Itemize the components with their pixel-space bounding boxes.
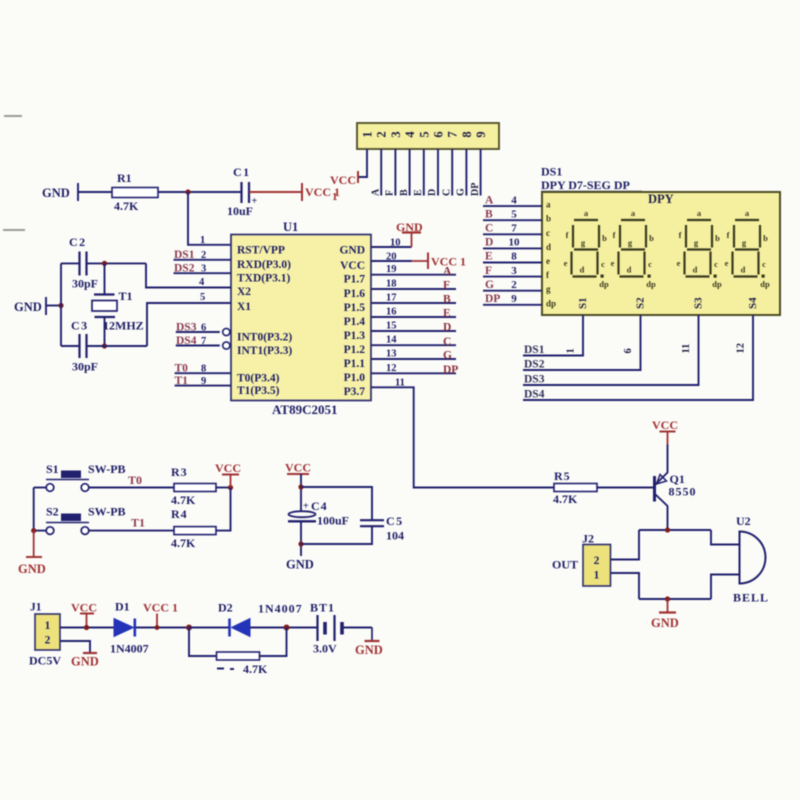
junction X2/crystal xyxy=(102,261,107,266)
svg-text:B: B xyxy=(399,189,410,196)
resistor R4 xyxy=(171,507,216,550)
svg-text:5: 5 xyxy=(200,292,205,303)
wire: U1 pin 3 (DS2) xyxy=(174,272,232,274)
svg-text:20: 20 xyxy=(386,251,397,262)
wire: R1 to C1, node RST xyxy=(158,191,241,193)
svg-text:C: C xyxy=(485,223,493,235)
capacitor C2 xyxy=(69,235,98,291)
svg-text:3: 3 xyxy=(389,131,403,137)
svg-text:4: 4 xyxy=(199,277,205,288)
wire: X1 node to U1 pin 5 xyxy=(147,303,231,346)
buzzer U2 BELL xyxy=(733,514,769,605)
wire: rail to S2 xyxy=(34,530,47,532)
wire: bell loop top xyxy=(639,529,711,531)
svg-text:11: 11 xyxy=(681,344,692,354)
wire: node to U1 pin 1 xyxy=(188,192,231,245)
wire: J2 pin 1 to bottom xyxy=(611,573,640,599)
svg-text:4: 4 xyxy=(511,194,517,206)
svg-text:d: d xyxy=(693,265,698,275)
svg-text:e: e xyxy=(546,256,550,266)
svg-text:INT0(P3.2): INT0(P3.2) xyxy=(237,332,292,344)
wire: bell loop bottom xyxy=(639,598,711,600)
svg-text:BT1: BT1 xyxy=(310,601,335,615)
wire: display input A xyxy=(483,205,542,207)
svg-text:RST/VPP: RST/VPP xyxy=(237,244,285,256)
svg-text:J1: J1 xyxy=(30,602,42,614)
svg-text:c: c xyxy=(648,259,652,269)
svg-text:DS3: DS3 xyxy=(524,374,545,386)
ground (switches) xyxy=(18,531,46,576)
wire: gnd rail vertical xyxy=(60,263,62,346)
svg-text:4.7K: 4.7K xyxy=(171,536,196,550)
svg-text:P1.1: P1.1 xyxy=(344,358,366,370)
wire: rail to C3 xyxy=(61,345,80,347)
wire: R3 to VCC node xyxy=(216,487,231,489)
svg-text:3.0V: 3.0V xyxy=(313,642,337,656)
svg-text:2: 2 xyxy=(45,635,51,647)
capacitor C3 xyxy=(71,319,98,374)
power symbol VCC (C4) xyxy=(285,461,311,475)
svg-text:d: d xyxy=(546,242,551,252)
svg-text:D: D xyxy=(427,189,438,196)
svg-text:9: 9 xyxy=(474,131,488,137)
svg-text:P1.6: P1.6 xyxy=(344,288,366,300)
svg-text:DP: DP xyxy=(485,293,500,305)
svg-text:1: 1 xyxy=(361,131,375,137)
wire: header pin 5 xyxy=(423,149,425,196)
svg-text:30pF: 30pF xyxy=(72,360,98,374)
svg-text:DPY D7-SEG DP: DPY D7-SEG DP xyxy=(541,178,630,192)
svg-text:a: a xyxy=(546,200,551,210)
connector J2 OUT xyxy=(552,532,611,587)
svg-text:SW-PB: SW-PB xyxy=(88,505,126,519)
wire: header pin 7 xyxy=(451,149,453,196)
svg-text:4.7K: 4.7K xyxy=(114,199,139,213)
svg-text:R1: R1 xyxy=(117,171,132,185)
svg-text:AT89C2051: AT89C2051 xyxy=(272,402,337,417)
svg-text:8: 8 xyxy=(511,251,517,263)
svg-text:b: b xyxy=(715,233,720,243)
svg-text:GND: GND xyxy=(355,643,383,657)
junction VCC/J1 xyxy=(84,625,89,630)
svg-text:e: e xyxy=(677,258,681,268)
svg-text:G: G xyxy=(485,279,494,291)
svg-text:P1.3: P1.3 xyxy=(344,330,366,342)
svg-text:P1.7: P1.7 xyxy=(344,274,366,286)
op-amp U1 AT89C2051 (microcontroller) xyxy=(231,220,371,417)
wire: U1 pin 13 (G) xyxy=(371,358,456,360)
svg-text:11: 11 xyxy=(395,377,405,388)
svg-text:6: 6 xyxy=(201,322,206,333)
svg-text:2: 2 xyxy=(375,131,389,137)
wire: display input DP xyxy=(483,304,542,306)
wire: R5 to Q1 base xyxy=(597,487,655,489)
wire: header pin 2 xyxy=(380,149,382,196)
wire: bypass right xyxy=(260,628,287,657)
wire: to crystal top xyxy=(104,263,106,294)
ground (BT1) xyxy=(355,628,383,658)
svg-text:S2: S2 xyxy=(46,505,59,519)
junction RST node xyxy=(185,189,190,194)
svg-text:GND: GND xyxy=(18,562,46,576)
svg-text:b: b xyxy=(602,233,607,243)
wire: loop to bell bottom xyxy=(711,575,740,600)
wire: top to J2 pin 2 xyxy=(611,530,640,560)
7-segment digit 1 xyxy=(564,208,609,289)
svg-text:INT1(P3.3): INT1(P3.3) xyxy=(237,345,292,357)
svg-text:DS1: DS1 xyxy=(541,165,562,179)
capacitor C5 xyxy=(360,514,404,543)
svg-text:2: 2 xyxy=(201,250,206,261)
wire: U1 pin 16 (E) xyxy=(371,316,456,318)
svg-text:VCC: VCC xyxy=(330,173,356,187)
wire: S3 to DS3 xyxy=(523,315,699,385)
svg-text:R3: R3 xyxy=(171,465,188,479)
svg-text:T0: T0 xyxy=(175,362,189,374)
svg-text:14: 14 xyxy=(386,335,397,346)
svg-text:+: + xyxy=(252,196,258,207)
svg-text:S4: S4 xyxy=(747,297,759,309)
svg-text:3: 3 xyxy=(511,265,517,277)
svg-text:GND: GND xyxy=(14,300,42,314)
display part label xyxy=(541,178,642,192)
svg-text:F: F xyxy=(385,190,396,196)
svg-text:dp: dp xyxy=(712,279,722,289)
svg-text:OUT: OUT xyxy=(552,558,578,572)
wire: J1 pin2 to GND xyxy=(60,641,90,653)
ground (crystal) xyxy=(14,297,46,315)
svg-text:12: 12 xyxy=(386,363,397,374)
svg-text:G: G xyxy=(456,188,467,196)
svg-text:R4: R4 xyxy=(171,507,188,521)
wire: header pin 1 to VCC xyxy=(358,149,367,177)
power symbol VCC (J1) xyxy=(71,601,97,628)
svg-text:B: B xyxy=(485,208,493,220)
svg-text:c: c xyxy=(546,228,550,238)
svg-text:8: 8 xyxy=(201,363,206,374)
svg-text:12: 12 xyxy=(736,343,747,354)
svg-text:b: b xyxy=(546,214,551,224)
wire: C2 to X2 node xyxy=(87,262,147,264)
wire: S1 to DS1 xyxy=(523,315,583,356)
switch S1 SW-PB xyxy=(46,462,126,491)
svg-text:7: 7 xyxy=(201,336,206,347)
pin 7 inversion circle xyxy=(223,342,230,349)
wire: display input E xyxy=(483,262,542,264)
svg-text:VCC: VCC xyxy=(215,461,241,475)
power symbol VCC (header) xyxy=(330,171,358,203)
svg-text:1: 1 xyxy=(332,191,338,203)
junction crystal gnd rail xyxy=(58,303,63,308)
wire: header pin 6 xyxy=(437,149,439,196)
svg-text:GND: GND xyxy=(286,558,314,572)
wire: gnd node to C5 xyxy=(301,527,372,544)
svg-text:10uF: 10uF xyxy=(227,204,253,218)
svg-text:dp: dp xyxy=(546,298,556,308)
wire: VCC to C4 xyxy=(300,474,302,511)
wire: U1 pin 6 (DS3) xyxy=(176,331,220,333)
wire: U1 pin 9 (T1) xyxy=(175,385,231,387)
svg-text:RXD(P3.0): RXD(P3.0) xyxy=(237,259,291,271)
svg-text:D: D xyxy=(485,237,493,249)
wire: BT1 to GND xyxy=(342,627,372,629)
wire: D1 to node VCC1 xyxy=(136,627,189,629)
svg-text:1: 1 xyxy=(566,348,577,353)
svg-text:U2: U2 xyxy=(736,514,751,528)
svg-text:1N4007: 1N4007 xyxy=(110,642,149,656)
svg-text:1: 1 xyxy=(45,620,51,632)
wire: header pin 3 xyxy=(394,149,396,196)
wire: loop to bell top xyxy=(711,530,740,545)
svg-text:D2: D2 xyxy=(218,601,233,615)
pin 6 inversion circle xyxy=(223,328,230,335)
svg-text:10: 10 xyxy=(390,237,401,248)
svg-text:C3: C3 xyxy=(71,319,89,333)
junction rail/S2 xyxy=(31,528,36,533)
wire: display input D xyxy=(483,247,542,249)
svg-text:T1: T1 xyxy=(175,375,189,387)
svg-text:T1: T1 xyxy=(131,516,145,530)
wire: rail to S1 xyxy=(34,487,47,489)
svg-text:9: 9 xyxy=(201,376,206,387)
junction bell gnd xyxy=(665,596,670,601)
svg-text:A: A xyxy=(443,265,452,277)
svg-text:E: E xyxy=(485,251,493,263)
junction R3/R4/VCC xyxy=(228,485,233,490)
wire: rail to C2 xyxy=(61,262,80,264)
svg-text:5: 5 xyxy=(417,131,431,137)
capacitor C1 xyxy=(227,165,258,218)
crystal T1 12MHZ xyxy=(92,289,144,333)
diode D2 1N4007 xyxy=(218,601,303,637)
svg-text:DS1: DS1 xyxy=(174,249,195,261)
svg-text:10: 10 xyxy=(509,237,521,249)
resistor R1 xyxy=(112,171,158,213)
wire: GND to rail xyxy=(46,305,61,307)
svg-text:DS3: DS3 xyxy=(176,321,197,333)
svg-text:S2: S2 xyxy=(635,297,647,309)
svg-text:1N4007: 1N4007 xyxy=(258,602,303,616)
svg-text:TXD(P3.1): TXD(P3.1) xyxy=(237,273,291,285)
svg-text:4.7K: 4.7K xyxy=(243,662,268,676)
svg-text:e: e xyxy=(611,258,615,268)
svg-text:DP: DP xyxy=(443,364,458,376)
svg-text:G: G xyxy=(443,350,452,362)
svg-text:1: 1 xyxy=(594,570,600,582)
svg-text:DC5V: DC5V xyxy=(29,654,61,668)
svg-text:DS4: DS4 xyxy=(176,335,197,347)
svg-text:d: d xyxy=(580,265,585,275)
svg-text:dp: dp xyxy=(599,279,609,289)
svg-text:c: c xyxy=(601,259,605,269)
svg-text:F: F xyxy=(485,265,492,277)
svg-text:30pF: 30pF xyxy=(72,277,98,291)
svg-text:4: 4 xyxy=(403,131,417,138)
svg-text:D1: D1 xyxy=(115,600,130,614)
svg-text:16: 16 xyxy=(386,307,397,318)
wire: U1 pin 19 (A) xyxy=(371,274,456,276)
svg-text:GND: GND xyxy=(651,616,679,630)
wire: X2 node to U1 pin 4 xyxy=(146,263,231,287)
svg-text:VCC: VCC xyxy=(652,418,678,432)
resistor R5 xyxy=(553,469,597,506)
svg-text:C2: C2 xyxy=(69,235,87,249)
junction X1/crystal xyxy=(102,343,107,348)
wire: U1 pin 7 (DS4) xyxy=(176,345,220,347)
svg-text:T1: T1 xyxy=(119,289,133,303)
svg-text:P1.4: P1.4 xyxy=(344,316,366,328)
svg-text:17: 17 xyxy=(386,293,397,304)
svg-text:T0: T0 xyxy=(128,473,142,487)
svg-text:d: d xyxy=(741,265,746,275)
svg-text:19: 19 xyxy=(386,264,397,275)
svg-text:S3: S3 xyxy=(693,297,705,309)
svg-text:X1: X1 xyxy=(237,301,251,313)
svg-text:VCC: VCC xyxy=(71,601,97,615)
wire: display input B xyxy=(483,219,542,221)
svg-text:8550: 8550 xyxy=(669,485,697,499)
wire: S4 to DS4 xyxy=(523,315,753,400)
svg-text:dp: dp xyxy=(646,279,656,289)
svg-text:12MHZ: 12MHZ xyxy=(103,319,144,333)
wire: U1 pin 20 VCC xyxy=(371,260,412,262)
svg-text:U1: U1 xyxy=(283,220,298,234)
svg-text:15: 15 xyxy=(386,321,397,332)
wire: C3 to X1 node xyxy=(87,345,148,347)
wire: D2 to BT1 xyxy=(250,627,318,629)
wire: J1 pin1 to D1 xyxy=(60,627,114,629)
wire: header pin 9 xyxy=(480,149,482,196)
svg-text:c: c xyxy=(762,259,766,269)
wire: S1 to R3 (T0) xyxy=(89,487,174,489)
wire: C4 to GND xyxy=(300,521,302,556)
wire: node to D2 xyxy=(189,627,229,629)
svg-text:C: C xyxy=(443,336,451,348)
svg-text:DS2: DS2 xyxy=(524,359,545,371)
resistor R3 xyxy=(171,465,216,507)
svg-text:VCC: VCC xyxy=(340,260,365,272)
collector lead xyxy=(656,495,668,531)
svg-text:4.7K: 4.7K xyxy=(553,492,578,506)
connector J1 DC5V xyxy=(29,602,61,668)
svg-text:6: 6 xyxy=(432,131,446,137)
svg-text:c: c xyxy=(714,259,718,269)
ground (left of R1) xyxy=(42,183,78,201)
svg-text:DP: DP xyxy=(470,183,481,196)
power symbol VCC (Q1) xyxy=(652,418,678,445)
svg-text:b: b xyxy=(649,233,654,243)
svg-text:+: + xyxy=(303,501,309,512)
7-segment digit 4 xyxy=(725,208,770,289)
svg-text:d: d xyxy=(627,265,632,275)
svg-text:7: 7 xyxy=(511,223,517,235)
junction VCC/C4 xyxy=(298,484,303,489)
wire: header pin 4 xyxy=(409,149,411,196)
svg-text:3: 3 xyxy=(201,264,206,275)
svg-text:P1.2: P1.2 xyxy=(344,344,366,356)
svg-text:D: D xyxy=(443,322,451,334)
svg-text:g: g xyxy=(546,284,551,294)
wire: display input G xyxy=(483,290,542,292)
switch S2 SW-PB xyxy=(46,505,126,535)
capacitor C4 (electrolytic) xyxy=(288,499,349,528)
svg-text:104: 104 xyxy=(386,529,404,543)
svg-text:C5: C5 xyxy=(386,514,404,528)
svg-text:e: e xyxy=(725,258,729,268)
wire: U1 pin 14 (C) xyxy=(371,344,456,346)
svg-text:GND: GND xyxy=(339,244,365,256)
svg-text:F: F xyxy=(443,280,450,292)
wire: U1 pin 17 (B) xyxy=(371,302,456,304)
power symbol VCC1 (U1 pin 20) xyxy=(412,253,466,270)
junction Q1 collector / bell xyxy=(665,527,670,532)
svg-text:f: f xyxy=(679,230,682,240)
svg-text:VCC: VCC xyxy=(285,461,311,475)
svg-text:B: B xyxy=(443,294,451,306)
svg-text:P3.7: P3.7 xyxy=(344,386,366,398)
svg-text:C1: C1 xyxy=(233,165,251,179)
svg-text:9: 9 xyxy=(511,293,517,305)
ground (J1) xyxy=(71,653,99,669)
wire: U1 pin 15 (D) xyxy=(371,330,456,332)
wire: crystal bottom to X1 wire xyxy=(104,317,106,346)
svg-text:T1(P3.5): T1(P3.5) xyxy=(237,385,280,397)
display DPY (4-digit 7-segment) xyxy=(542,192,780,315)
svg-text:C4: C4 xyxy=(311,499,328,513)
svg-text:GND: GND xyxy=(396,220,423,234)
svg-text:18: 18 xyxy=(386,279,397,290)
ground (U1 pin 10) xyxy=(396,220,423,247)
wire: VCC node to C5 xyxy=(301,487,372,520)
svg-text:C: C xyxy=(441,189,452,196)
svg-text:8: 8 xyxy=(460,131,474,137)
wire: display input F xyxy=(483,276,542,278)
svg-text:100uF: 100uF xyxy=(317,514,349,528)
svg-text:S1: S1 xyxy=(577,297,589,309)
svg-text:f: f xyxy=(613,230,616,240)
wire: U1 pin 10 to GND xyxy=(371,246,412,248)
svg-text:P1.0: P1.0 xyxy=(344,372,366,384)
svg-text:S1: S1 xyxy=(46,462,59,476)
junction D2 right xyxy=(284,625,290,631)
svg-text:b: b xyxy=(763,233,768,243)
wire: switch gnd rail xyxy=(33,488,35,531)
wire: header pin 8 xyxy=(465,149,467,196)
svg-text:T0(P3.4): T0(P3.4) xyxy=(237,373,280,385)
svg-text:BELL: BELL xyxy=(733,591,769,605)
power symbol VCC1 (at C1) xyxy=(302,183,340,201)
wire: U1 pin 12 (DP) xyxy=(371,372,456,374)
svg-text:DPY: DPY xyxy=(648,192,674,206)
svg-text:E: E xyxy=(443,308,451,320)
svg-text:5: 5 xyxy=(511,208,517,220)
power symbol VCC (switches) xyxy=(215,461,241,488)
svg-text:X2: X2 xyxy=(237,286,251,298)
svg-text:4.7K: 4.7K xyxy=(171,493,196,507)
svg-text:13: 13 xyxy=(386,349,397,360)
wire: S2 to R4 (T1) xyxy=(89,530,174,532)
svg-text:f: f xyxy=(727,230,730,240)
svg-text:DS4: DS4 xyxy=(524,389,545,401)
svg-text:A: A xyxy=(370,188,381,196)
svg-text:VCC 1: VCC 1 xyxy=(143,601,178,615)
7-segment digit 3 xyxy=(677,208,722,289)
svg-text:dp: dp xyxy=(760,279,770,289)
svg-text:GND: GND xyxy=(42,186,70,200)
battery BT1 3.0V xyxy=(310,601,342,656)
wire: U1 pin 11 (P3.7) to R5 xyxy=(371,387,554,487)
wire: U1 pin 8 (T0) xyxy=(175,372,231,374)
